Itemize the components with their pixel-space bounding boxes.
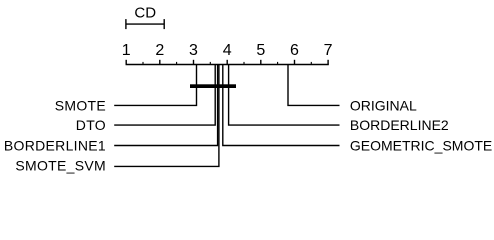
major ticks [126,60,328,65]
axis tick label 1 [122,42,131,59]
label GEOMETRIC_SMOTE [350,137,492,153]
ORIGINAL rank line [288,65,340,106]
SMOTE rank line [114,65,196,106]
BORDERLINE1 rank line [114,65,217,146]
SMOTE_SVM rank line [114,65,219,167]
label SMOTE_SVM [15,158,106,174]
label ORIGINAL [350,97,417,113]
axis tick label 6 [290,42,299,59]
significance group bar [190,84,236,88]
axis tick label 3 [189,42,198,59]
DTO rank line [114,65,215,126]
label BORDERLINE2 [350,117,449,133]
CD interval bar [126,19,164,29]
svg-text:5: 5 [256,42,265,59]
svg-text:2: 2 [155,42,164,59]
axis tick label 4 [223,42,232,59]
svg-text:BORDERLINE2: BORDERLINE2 [350,117,449,133]
svg-text:ORIGINAL: ORIGINAL [350,97,417,113]
svg-text:CD: CD [134,4,156,21]
svg-text:GEOMETRIC_SMOTE: GEOMETRIC_SMOTE [350,137,492,153]
GEOMETRIC_SMOTE rank line [223,65,340,146]
axis tick label 2 [155,42,164,59]
svg-text:SMOTE_SVM: SMOTE_SVM [15,158,106,174]
svg-text:DTO: DTO [76,117,106,133]
svg-text:7: 7 [324,42,333,59]
BORDERLINE2 rank line [229,65,340,126]
svg-text:6: 6 [290,42,299,59]
axis tick label 7 [324,42,333,59]
label DTO [76,117,106,133]
axis tick label 5 [256,42,265,59]
svg-text:1: 1 [122,42,131,59]
label BORDERLINE1 [4,137,106,153]
svg-text:SMOTE: SMOTE [55,97,106,113]
CD label [134,4,156,21]
svg-text:4: 4 [223,42,232,59]
minor ticks [143,62,311,65]
svg-text:BORDERLINE1: BORDERLINE1 [4,137,106,153]
svg-text:3: 3 [189,42,198,59]
axis line [126,64,329,66]
label SMOTE [55,97,106,113]
